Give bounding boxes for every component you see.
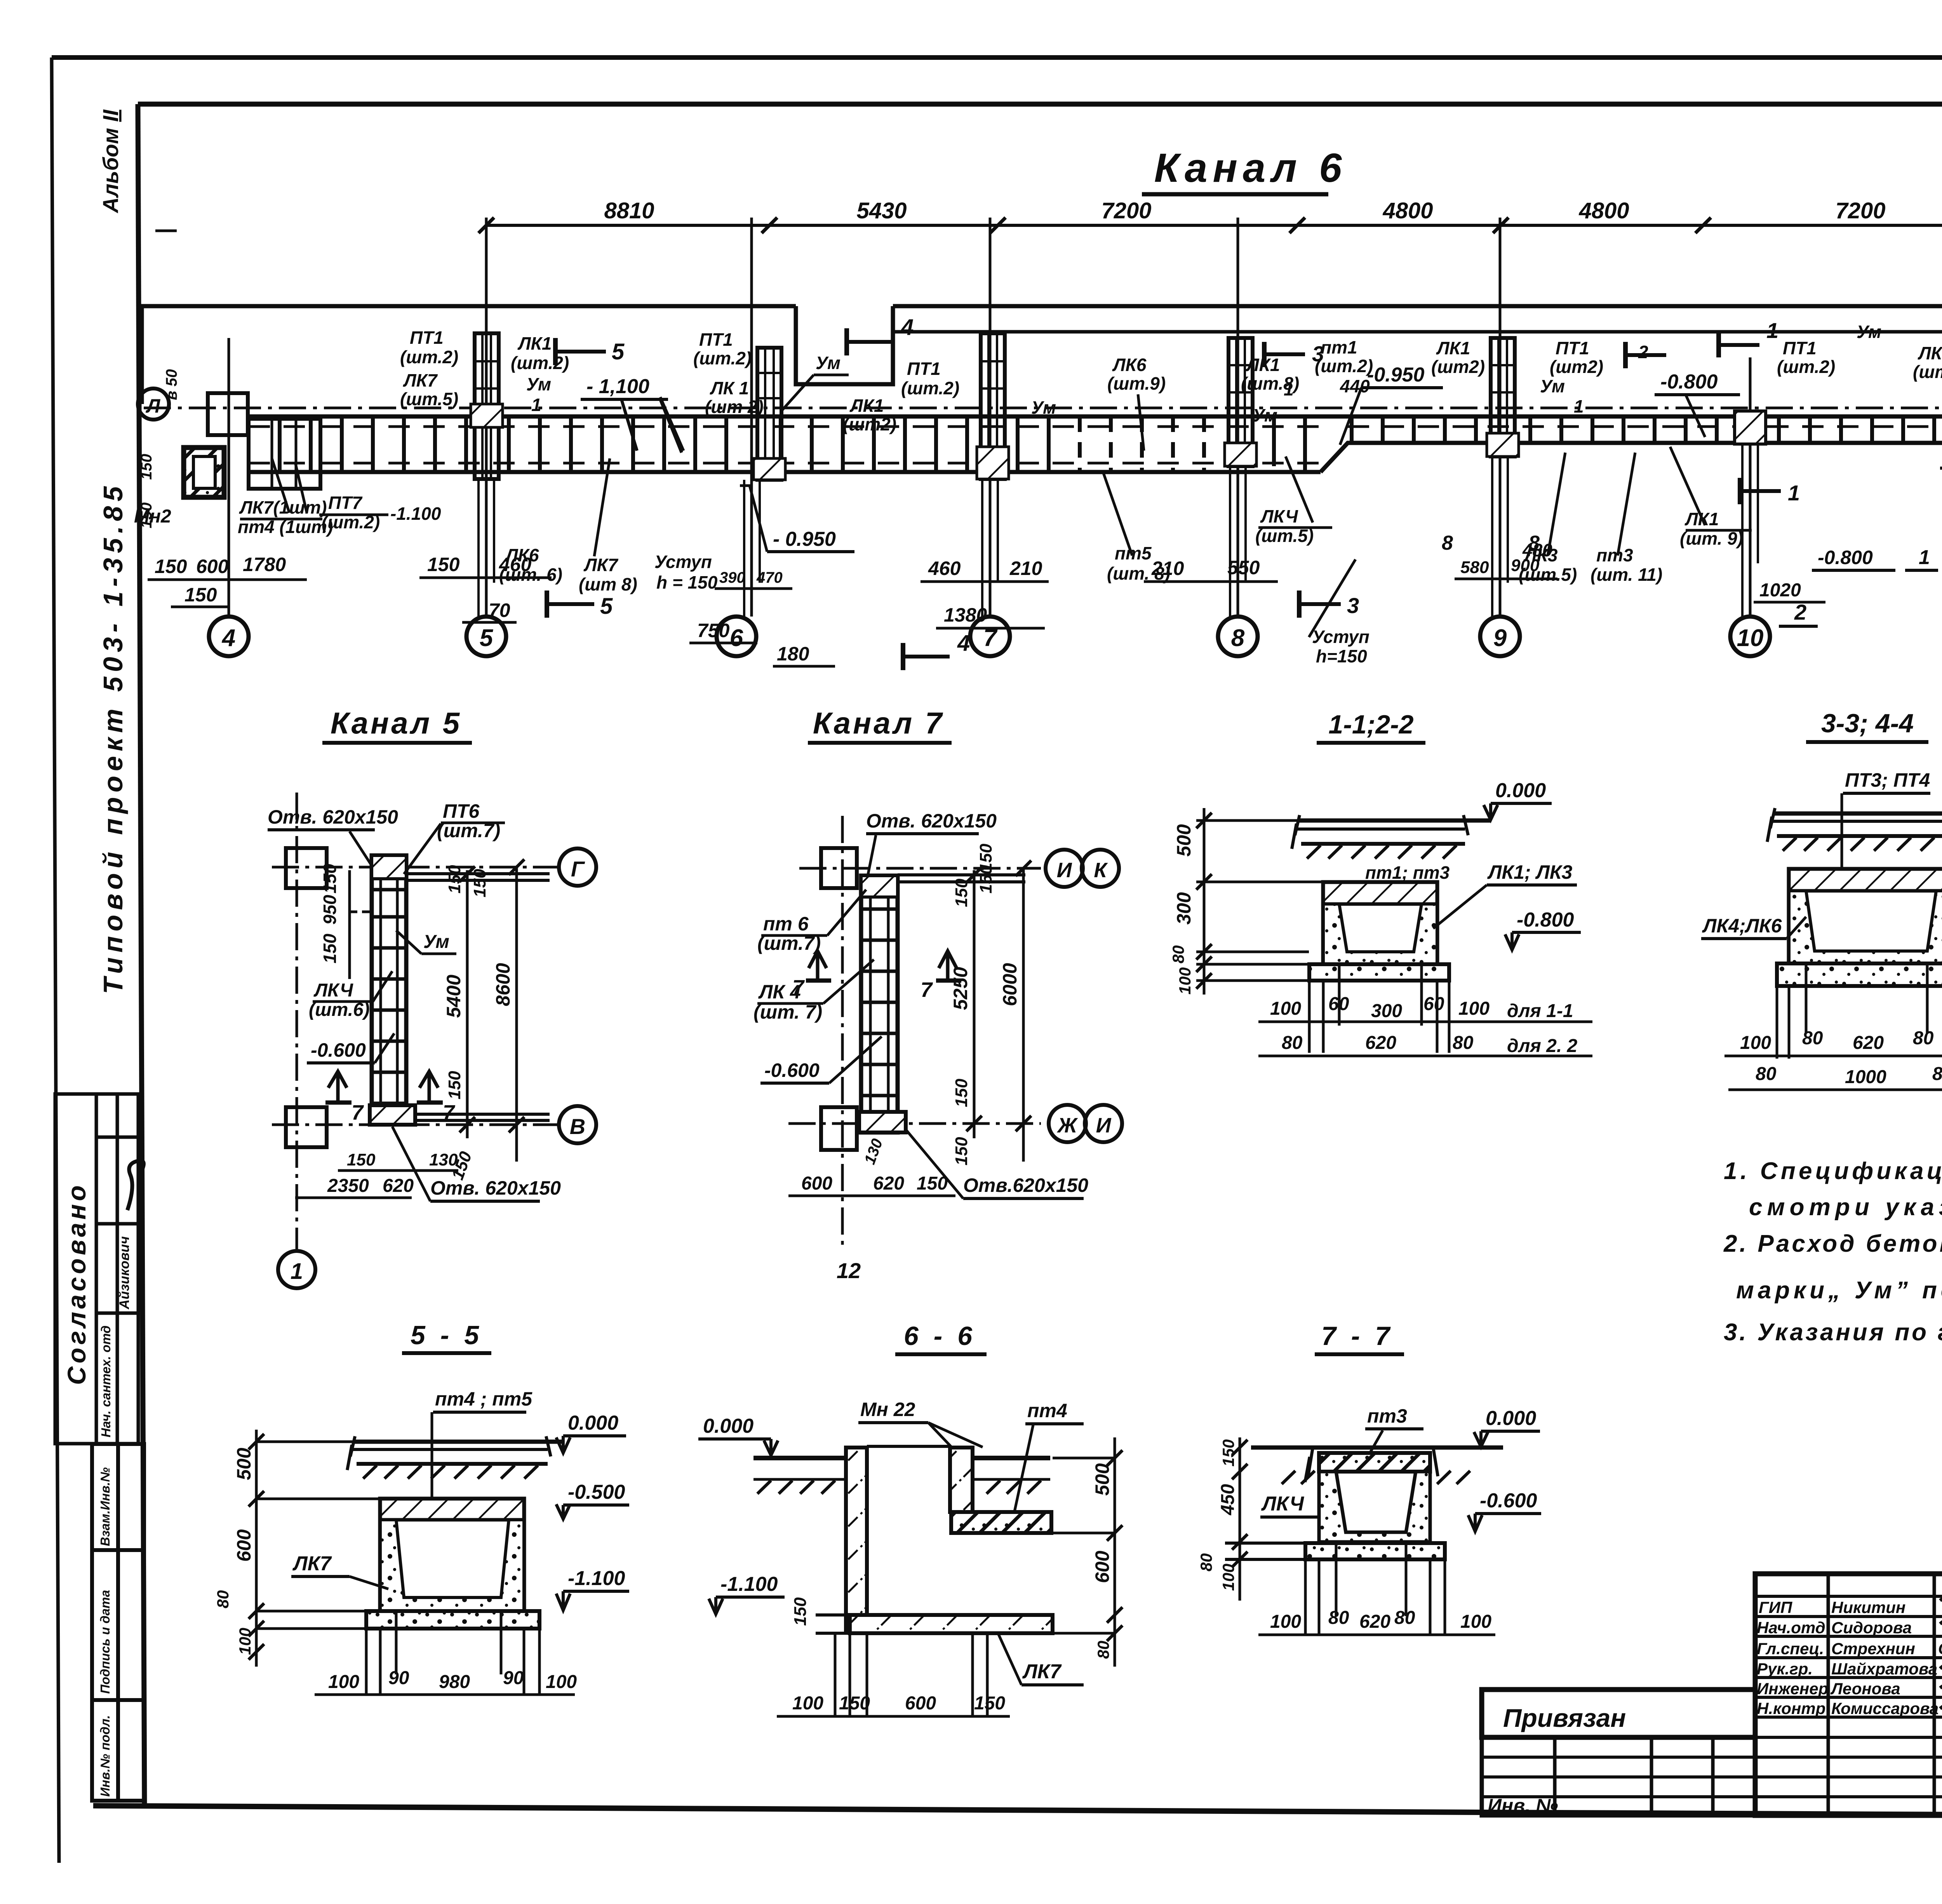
svg-text:100: 100 bbox=[546, 1672, 577, 1692]
svg-text:8: 8 bbox=[1231, 625, 1245, 652]
svg-text:Инженер: Инженер bbox=[1757, 1679, 1828, 1698]
svg-text:60: 60 bbox=[1328, 994, 1349, 1014]
signature squiggle bbox=[127, 1161, 144, 1210]
svg-text:И: И bbox=[1096, 1114, 1112, 1137]
labels near axis 10-11: PT1 LK1 Um bbox=[1777, 322, 1942, 466]
section mark 4 top bbox=[844, 328, 849, 355]
svg-text:- 0.950: - 0.950 bbox=[773, 528, 836, 550]
svg-text:620: 620 bbox=[383, 1176, 414, 1196]
svg-text:ЛК7(1шт): ЛК7(1шт) bbox=[239, 497, 327, 517]
pier at axis 6 bbox=[753, 348, 785, 480]
svg-text:450: 450 bbox=[1218, 1484, 1238, 1516]
svg-text:Согласовано: Согласовано bbox=[62, 1182, 91, 1385]
svg-text:(шт 2): (шт 2) bbox=[705, 397, 764, 417]
svg-text:ЛК1: ЛК1 bbox=[1918, 343, 1942, 363]
svg-text:550: 550 bbox=[1227, 557, 1260, 578]
labels near axis 9: LK1 PT1 Um bbox=[1431, 338, 1648, 560]
3-3 channel section bbox=[1789, 869, 1942, 963]
7-7 ground hatch bbox=[1282, 1471, 1470, 1484]
svg-text:100: 100 bbox=[1176, 967, 1194, 995]
svg-text:500: 500 bbox=[233, 1448, 255, 1480]
svg-text:Шайхратова: Шайхратова bbox=[1831, 1660, 1937, 1678]
svg-text:1: 1 bbox=[1574, 396, 1584, 416]
svg-text:100: 100 bbox=[1458, 998, 1490, 1019]
1-1 left dim column bbox=[1203, 808, 1206, 995]
svg-text:80: 80 bbox=[1169, 945, 1187, 963]
svg-text:ГИП: ГИП bbox=[1759, 1598, 1792, 1617]
svg-text:(шт.9): (шт.9) bbox=[1107, 373, 1166, 394]
K5 section 7 marks bbox=[328, 1071, 347, 1101]
svg-text:Взам.Инв.№: Взам.Инв.№ bbox=[98, 1467, 112, 1546]
K7 horizontal axis I/K bbox=[799, 867, 1041, 870]
svg-text:70: 70 bbox=[489, 599, 510, 621]
1-1 ground hatch bbox=[1307, 845, 1456, 859]
svg-text:2350: 2350 bbox=[327, 1176, 369, 1196]
K5 bottom hatched box bbox=[370, 1105, 415, 1125]
svg-text:7: 7 bbox=[352, 1101, 364, 1124]
svg-text:Ум: Ум bbox=[816, 353, 840, 373]
inner frame top line bbox=[138, 102, 1942, 107]
svg-text:3: 3 bbox=[1312, 341, 1324, 366]
svg-text:(шт.5): (шт.5) bbox=[1519, 564, 1577, 585]
1-1 bottom dims row2 bbox=[1282, 1033, 1578, 1056]
K7 channel vertical walls bbox=[861, 876, 898, 1132]
labels LK3 PT3 bbox=[1519, 545, 1662, 585]
svg-text:ЛКЧ: ЛКЧ bbox=[313, 980, 353, 1001]
svg-text:для 2. 2: для 2. 2 bbox=[1507, 1036, 1578, 1056]
channel band top wall line bbox=[249, 415, 1942, 419]
svg-text:Никитин: Никитин bbox=[1831, 1598, 1905, 1617]
svg-text:ЛК4;ЛК6: ЛК4;ЛК6 bbox=[1702, 915, 1782, 937]
section mark 4 bottom bbox=[901, 643, 905, 670]
svg-text:ЛК1; ЛК3: ЛК1; ЛК3 bbox=[1487, 861, 1573, 883]
svg-text:К: К bbox=[1094, 859, 1108, 882]
svg-text:пт 6: пт 6 bbox=[763, 913, 809, 935]
svg-text:Отв.620х150: Отв.620х150 bbox=[963, 1174, 1088, 1196]
svg-text:150: 150 bbox=[138, 454, 155, 480]
K5 horizontal axis V bbox=[272, 1124, 557, 1126]
svg-text:Отл: Отл bbox=[1938, 1639, 1942, 1658]
svg-text:ЛК7: ЛК7 bbox=[583, 555, 619, 575]
svg-text:(шт2): (шт2) bbox=[1431, 357, 1485, 377]
svg-text:390: 390 bbox=[719, 569, 745, 586]
plan: top boundary line (left) bbox=[142, 306, 796, 404]
pier at axis 7 bbox=[977, 333, 1009, 479]
svg-text:600: 600 bbox=[196, 556, 229, 577]
section mark 5 top bbox=[553, 338, 558, 365]
svg-text:0.000: 0.000 bbox=[1495, 779, 1546, 802]
labels near axis 7: PT1, LK1, Um, LK6 bbox=[499, 359, 1170, 585]
svg-text:ЛК 1: ЛК 1 bbox=[710, 378, 749, 398]
svg-text:ПТ1: ПТ1 bbox=[1783, 338, 1817, 358]
svg-text:1: 1 bbox=[1788, 481, 1800, 505]
svg-text:в 50: в 50 bbox=[163, 369, 180, 400]
6-6 top slab lines bbox=[753, 1456, 846, 1460]
svg-text:7: 7 bbox=[443, 1101, 456, 1124]
svg-text:100: 100 bbox=[1219, 1564, 1237, 1591]
svg-text:80: 80 bbox=[1802, 1028, 1823, 1049]
dimension ticks bbox=[479, 218, 1942, 233]
svg-text:- 1,100: - 1,100 bbox=[586, 375, 649, 398]
K7 horizontal axis Zh/I bbox=[788, 1122, 1041, 1125]
svg-text:Комиссарова: Комиссарова bbox=[1831, 1699, 1939, 1718]
column bubble 4 bbox=[209, 617, 249, 656]
channel band step (ustup) bbox=[1321, 443, 1942, 472]
plan: boundary notch between axes 6-7 bbox=[796, 306, 893, 384]
svg-text:90: 90 bbox=[503, 1668, 524, 1688]
5-5 footing bbox=[366, 1611, 539, 1629]
svg-text:150: 150 bbox=[184, 584, 217, 606]
svg-text:(шт2): (шт2) bbox=[1550, 357, 1603, 377]
svg-text:100: 100 bbox=[1270, 1611, 1301, 1632]
K5 channel rungs bbox=[372, 890, 406, 1103]
svg-text:Г: Г bbox=[571, 857, 585, 881]
7-7 left dim column bbox=[1239, 1437, 1241, 1601]
axis vertical lines from dim line to bubbles bbox=[229, 186, 1942, 617]
3-3 bottom dims row1 bbox=[1777, 963, 1942, 1059]
7-7 bottom dims bbox=[1305, 1542, 1445, 1636]
svg-text:8600: 8600 bbox=[492, 963, 514, 1006]
svg-text:ЛК3: ЛК3 bbox=[1523, 545, 1558, 565]
svg-text:620: 620 bbox=[1853, 1033, 1884, 1053]
svg-text:150: 150 bbox=[952, 1137, 971, 1165]
svg-text:1: 1 bbox=[1284, 379, 1294, 399]
svg-text:пт3: пт3 bbox=[1596, 545, 1633, 565]
K5 channel vertical walls bbox=[372, 855, 406, 1124]
svg-text:Отв. 620х150: Отв. 620х150 bbox=[430, 1177, 561, 1199]
svg-text:620: 620 bbox=[1359, 1611, 1390, 1632]
column bubble 5 bbox=[466, 617, 506, 656]
svg-text:(шт. 6): (шт. 6) bbox=[499, 564, 562, 585]
svg-text:80: 80 bbox=[1094, 1641, 1112, 1659]
svg-text:ЛК7: ЛК7 bbox=[403, 370, 438, 390]
svg-text:6: 6 bbox=[730, 625, 743, 652]
svg-text:ЛКЧ: ЛКЧ bbox=[1261, 1493, 1304, 1515]
svg-text:Нач. сантех. отд: Нач. сантех. отд bbox=[99, 1326, 113, 1437]
labels below band left: LK7 PT4 bbox=[238, 493, 441, 537]
svg-text:Л: Л bbox=[146, 395, 161, 417]
dims near axis 6: 390 470 750 180 bbox=[719, 569, 783, 586]
svg-text:150: 150 bbox=[839, 1693, 870, 1714]
svg-text:ПТ1: ПТ1 bbox=[699, 329, 733, 350]
plan: centre dash-dot axis line bbox=[144, 407, 1942, 409]
K5 horizontal axis G bbox=[272, 866, 557, 869]
svg-text:ЛК7: ЛК7 bbox=[1022, 1660, 1062, 1683]
dims 580 900 under axis 9 bbox=[1460, 556, 1540, 577]
svg-text:Ум: Ум bbox=[1253, 405, 1277, 425]
svg-text:2: 2 bbox=[1638, 342, 1648, 362]
plan: top boundary line (right) bbox=[893, 272, 1942, 328]
column bubble 10 bbox=[1730, 617, 1770, 656]
7-7 footing bbox=[1305, 1543, 1445, 1559]
svg-text:(шт 8): (шт 8) bbox=[579, 574, 637, 594]
plan: secondary boundary line bbox=[893, 330, 1942, 334]
section mark 1 top left of axis 10 bbox=[1716, 332, 1721, 357]
K7 bottom hatched box bbox=[859, 1112, 906, 1132]
notes text block bbox=[1723, 1158, 1942, 1346]
svg-text:3: 3 bbox=[1347, 593, 1359, 618]
svg-text:ЛК6: ЛК6 bbox=[1112, 355, 1147, 375]
svg-text:-0.600: -0.600 bbox=[1480, 1489, 1537, 1512]
svg-text:210: 210 bbox=[1151, 557, 1184, 579]
svg-text:4800: 4800 bbox=[1382, 198, 1433, 223]
left margin: attribute boxes (Взам.Инв, Подпись и дата, Инв.№ подл) bbox=[92, 1444, 144, 1801]
K5 dashed mark bbox=[350, 911, 373, 913]
3-3 footing bbox=[1777, 963, 1942, 986]
svg-text:ПТ1: ПТ1 bbox=[1556, 338, 1589, 358]
svg-text:Отв. 620х150: Отв. 620х150 bbox=[866, 810, 997, 832]
column bubble 8 bbox=[1218, 617, 1258, 656]
1-1 bottom dims row1 bbox=[1309, 964, 1449, 1053]
svg-text:пт4: пт4 bbox=[1027, 1400, 1067, 1421]
svg-text:80: 80 bbox=[1756, 1064, 1777, 1084]
signatures squiggles bbox=[1940, 1596, 1942, 1714]
6-6 bottom dims bbox=[835, 1633, 987, 1717]
svg-text:-0.600: -0.600 bbox=[764, 1059, 820, 1081]
svg-text:80: 80 bbox=[1282, 1033, 1303, 1053]
svg-text:Гл.спец.: Гл.спец. bbox=[1757, 1639, 1824, 1658]
svg-text:Отв. 620х150: Отв. 620х150 bbox=[268, 806, 398, 828]
svg-text:(шт.2): (шт.2) bbox=[511, 353, 569, 373]
svg-text:-0.800: -0.800 bbox=[1517, 909, 1574, 931]
K5 vertical axis 1 dash-dot bbox=[296, 793, 298, 1249]
svg-text:Мн2: Мн2 bbox=[134, 506, 171, 527]
K5 top hatched bit bbox=[372, 855, 406, 879]
svg-text:1780: 1780 bbox=[243, 554, 286, 575]
svg-text:8: 8 bbox=[1442, 532, 1453, 554]
left margin: Согласовано block bbox=[55, 1094, 138, 1444]
K5 dim 8600 bbox=[515, 867, 518, 1162]
svg-text:пт1; пт3: пт1; пт3 bbox=[1365, 862, 1450, 883]
svg-text:100: 100 bbox=[1460, 1611, 1491, 1632]
svg-text:600: 600 bbox=[801, 1173, 832, 1194]
svg-text:7: 7 bbox=[792, 976, 805, 999]
section mark 1 bottom bbox=[1738, 478, 1742, 504]
channel band bottom wall line (left deep part) bbox=[249, 470, 1321, 474]
svg-text:980: 980 bbox=[439, 1672, 470, 1692]
svg-text:210: 210 bbox=[1009, 557, 1042, 579]
section mark 2 top bbox=[1623, 342, 1628, 368]
svg-text:6000: 6000 bbox=[999, 963, 1021, 1006]
svg-text:ЛК1: ЛК1 bbox=[849, 395, 884, 416]
6-6 right dim column bbox=[1114, 1437, 1116, 1667]
svg-text:ПТ7: ПТ7 bbox=[328, 493, 363, 513]
K7 dim 5250 bbox=[973, 870, 976, 1138]
svg-text:80: 80 bbox=[1197, 1553, 1215, 1571]
svg-text:Н.контр: Н.контр bbox=[1757, 1699, 1825, 1718]
svg-text:620: 620 bbox=[1365, 1033, 1396, 1053]
svg-text:Инв. №: Инв. № bbox=[1488, 1795, 1558, 1817]
left end: PT7 wide box bbox=[249, 419, 320, 489]
svg-text:1380: 1380 bbox=[944, 604, 987, 626]
svg-text:h=150: h=150 bbox=[1316, 646, 1367, 666]
5-5 ground hatch bbox=[363, 1465, 538, 1479]
5-5 left dim column bbox=[255, 1430, 258, 1667]
svg-text:1: 1 bbox=[1919, 546, 1930, 569]
svg-text:500: 500 bbox=[1173, 824, 1195, 857]
6-6 bottom slab hatched bbox=[850, 1615, 1053, 1633]
K5 bottom slab lines right bbox=[415, 1113, 550, 1116]
svg-text:-1.100: -1.100 bbox=[720, 1573, 778, 1596]
svg-text:1: 1 bbox=[291, 1259, 303, 1284]
svg-text:80: 80 bbox=[1394, 1608, 1415, 1628]
6-6 ground hatch bbox=[757, 1481, 1041, 1494]
svg-text:460: 460 bbox=[928, 557, 961, 579]
svg-text:ЛК1: ЛК1 bbox=[517, 333, 552, 354]
svg-text:(шт.2): (шт.2) bbox=[1777, 357, 1835, 377]
svg-text:(шт2): (шт2) bbox=[843, 414, 896, 434]
K7 channel rungs bbox=[861, 909, 898, 1096]
sheet outer border top line bbox=[52, 55, 1942, 60]
svg-text:100: 100 bbox=[1740, 1033, 1771, 1053]
svg-text:150: 150 bbox=[952, 1078, 971, 1107]
svg-text:Канал 7: Канал 7 bbox=[813, 706, 944, 740]
sheet left fold line bbox=[52, 57, 59, 1863]
left end: axis Л bubble bbox=[138, 388, 169, 420]
svg-text:5250: 5250 bbox=[950, 967, 971, 1010]
dimension labels bbox=[604, 198, 1942, 223]
7-7 floor line bbox=[1251, 1446, 1503, 1450]
K7 dim 6000 bbox=[1022, 868, 1025, 1162]
svg-text:80: 80 bbox=[1453, 1033, 1474, 1053]
svg-text:ПТ1: ПТ1 bbox=[907, 359, 941, 379]
svg-text:-1.100: -1.100 bbox=[390, 503, 441, 524]
svg-text:Леонова: Леонова bbox=[1830, 1679, 1900, 1698]
svg-text:1020: 1020 bbox=[1759, 580, 1801, 601]
svg-text:100: 100 bbox=[792, 1693, 823, 1714]
svg-text:4: 4 bbox=[901, 315, 914, 340]
svg-text:7200: 7200 bbox=[1101, 198, 1151, 223]
K7 top slab double line right bbox=[898, 873, 1025, 876]
svg-text:Уступ: Уступ bbox=[1312, 627, 1369, 647]
dims 460 210 under axis 7 bbox=[928, 557, 1042, 579]
6-6 right wall upper hatched bbox=[950, 1448, 973, 1512]
K7 column squares bbox=[821, 848, 857, 888]
svg-text:4: 4 bbox=[221, 625, 235, 652]
channel band rungs left part bbox=[280, 416, 1049, 472]
svg-text:ЛК6: ЛК6 bbox=[505, 545, 539, 565]
svg-text:Айзикович: Айзикович bbox=[117, 1236, 132, 1310]
svg-text:Альбом II: Альбом II bbox=[98, 109, 123, 214]
svg-text:180: 180 bbox=[777, 643, 809, 665]
svg-text:Подпись и дата: Подпись и дата bbox=[98, 1590, 112, 1694]
svg-text:ЛК1: ЛК1 bbox=[1436, 338, 1470, 358]
labels above band at axis 5: PT1 bbox=[400, 327, 569, 415]
svg-text:-0.950: -0.950 bbox=[1367, 364, 1425, 386]
AK1 sht9 label left of axis 10 bbox=[1680, 509, 1743, 549]
svg-text:150: 150 bbox=[347, 1150, 376, 1169]
svg-text:-0.800: -0.800 bbox=[1660, 371, 1718, 393]
svg-text:смотри указания по изготовл: смотри указания по изготовлению каналов bbox=[1749, 1194, 1942, 1221]
5-5 floor slab bbox=[353, 1440, 563, 1444]
svg-text:ЛК7: ЛК7 bbox=[292, 1552, 332, 1575]
svg-text:ПТ6: ПТ6 bbox=[443, 800, 480, 822]
svg-text:580: 580 bbox=[1460, 558, 1489, 577]
left end: Mn22 hatched element bbox=[184, 448, 224, 497]
svg-text:150: 150 bbox=[974, 1693, 1005, 1714]
svg-text:5430: 5430 bbox=[856, 198, 907, 223]
svg-text:80: 80 bbox=[214, 1590, 232, 1608]
svg-text:Канал 6: Канал 6 bbox=[1154, 145, 1347, 191]
1-1 footing bbox=[1309, 964, 1449, 981]
svg-text:Канал 5: Канал 5 bbox=[331, 706, 462, 740]
svg-text:Типовой проект 503- 1-35.85: Типовой проект 503- 1-35.85 bbox=[98, 482, 128, 994]
7-7 channel walls trapezoid bbox=[1319, 1472, 1430, 1542]
K7 top hatched bit bbox=[861, 876, 898, 897]
svg-text:-1.100: -1.100 bbox=[568, 1567, 625, 1590]
svg-text:1: 1 bbox=[531, 395, 541, 415]
dims 210 550 under axis 8 bbox=[1151, 557, 1260, 579]
section mark 3 top bbox=[1262, 342, 1267, 367]
svg-text:пт5: пт5 bbox=[1115, 543, 1152, 563]
channel band inner dashed lines bbox=[249, 425, 1321, 428]
svg-text:5: 5 bbox=[480, 625, 494, 652]
column bubble 6 bbox=[717, 617, 756, 656]
channel band rungs right part bbox=[1274, 416, 1942, 472]
left end dims 150 600 1780 bbox=[155, 554, 286, 606]
channel band dashed middle part (between axes 7-8) bbox=[1080, 416, 1204, 472]
5-5 bottom dims bbox=[366, 1611, 539, 1694]
svg-text:9: 9 bbox=[1493, 625, 1507, 652]
svg-text:600: 600 bbox=[1091, 1550, 1113, 1583]
1-1 channel section bbox=[1323, 882, 1437, 964]
svg-text:пт1: пт1 bbox=[1321, 337, 1357, 357]
hatched block at axis 10 bbox=[1735, 411, 1766, 444]
svg-text:-0.600: -0.600 bbox=[311, 1039, 366, 1061]
svg-text:Ум: Ум bbox=[1031, 397, 1056, 418]
inner frame left edge bbox=[138, 104, 144, 1808]
svg-text:ПТ1: ПТ1 bbox=[410, 327, 444, 348]
svg-text:Привязан: Привязан bbox=[1503, 1704, 1626, 1732]
svg-text:500: 500 bbox=[1091, 1463, 1113, 1496]
svg-text:150: 150 bbox=[427, 554, 460, 575]
svg-text:5400: 5400 bbox=[443, 975, 465, 1018]
svg-text:-0.500: -0.500 bbox=[568, 1481, 625, 1503]
svg-text:300: 300 bbox=[1371, 1001, 1402, 1021]
pier at axis 5 bbox=[471, 333, 503, 479]
svg-text:(шт.2): (шт.2) bbox=[400, 347, 458, 367]
K7 section 7 marks bbox=[809, 951, 827, 979]
3-3 floor slab bbox=[1773, 812, 1942, 816]
svg-text:80: 80 bbox=[1932, 1064, 1942, 1084]
svg-text:5: 5 bbox=[612, 339, 625, 364]
svg-text:300: 300 bbox=[1173, 892, 1195, 925]
3-3 bottom dims row2 bbox=[1756, 1064, 1942, 1088]
svg-text:0.000: 0.000 bbox=[1486, 1407, 1536, 1430]
labels near axis 8: LK1 PT1 bbox=[1241, 337, 1373, 425]
1-1 floor slab bbox=[1297, 819, 1491, 823]
3-3 ground hatch bbox=[1783, 838, 1942, 851]
svg-text:(шт.2): (шт.2) bbox=[901, 378, 959, 398]
svg-text:150: 150 bbox=[445, 1071, 464, 1099]
svg-text:750: 750 bbox=[697, 620, 730, 641]
svg-text:0.000: 0.000 bbox=[703, 1415, 753, 1437]
svg-text:Стрехнин: Стрехнин bbox=[1831, 1639, 1915, 1658]
column bubble 7 bbox=[970, 617, 1010, 656]
svg-text:И: И bbox=[1057, 859, 1072, 882]
svg-text:90: 90 bbox=[388, 1668, 409, 1688]
labels LK4 sht5 bbox=[1255, 506, 1314, 546]
labels below band: LK7 sht8, Ustup bbox=[579, 552, 718, 594]
svg-text:для 1-1: для 1-1 bbox=[1507, 1001, 1573, 1021]
pier at axis 9 bbox=[1487, 338, 1519, 456]
svg-text:Инв.№ подл.: Инв.№ подл. bbox=[98, 1715, 112, 1797]
svg-text:пт3: пт3 bbox=[1367, 1405, 1407, 1427]
svg-text:100: 100 bbox=[1270, 998, 1301, 1019]
svg-text:150: 150 bbox=[155, 556, 187, 577]
top dimension line bbox=[486, 224, 1942, 227]
svg-text:Ум: Ум bbox=[526, 374, 551, 394]
